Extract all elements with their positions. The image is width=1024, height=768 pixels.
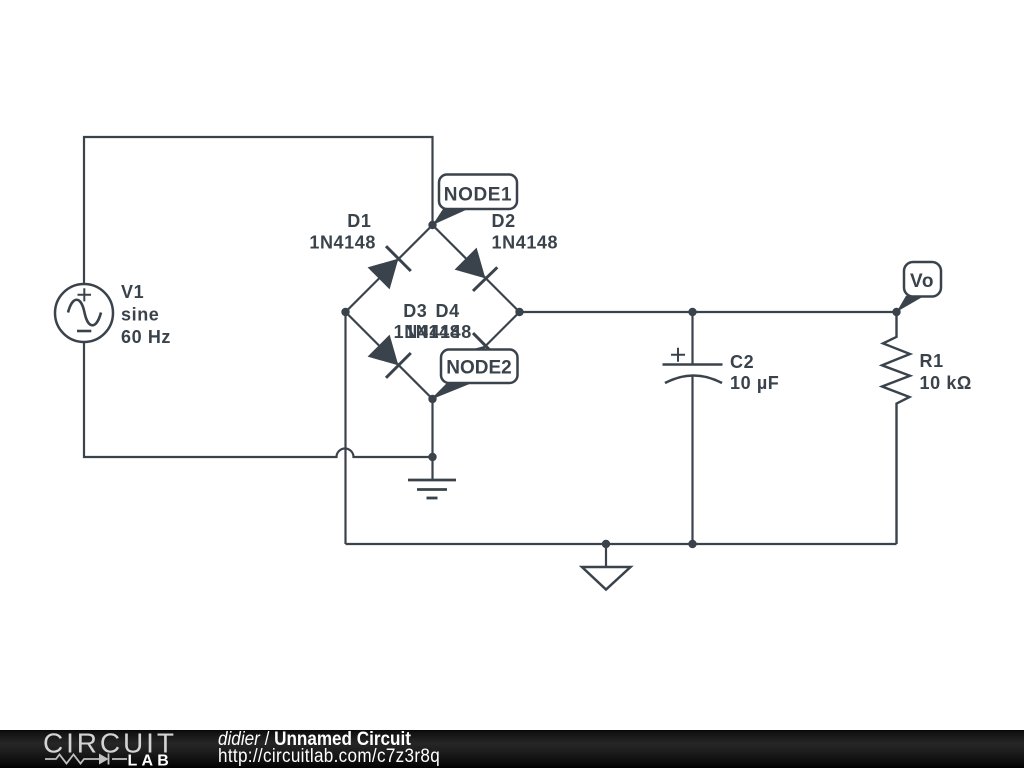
voltage source V1 [55,284,113,342]
wire ground G2 stub [605,544,607,567]
node dot R1 top / Vo [892,308,900,316]
wire V1 bottom to junction below bridge (with hop over vertical wire) [84,342,433,457]
resistor R1 [882,312,910,544]
wire bridge diamond edges [346,225,520,399]
ground G2 (triangle) [582,567,631,590]
wire top loop: V1 top to bridge top [84,137,433,284]
node dot bridge top [428,221,436,229]
svg-text:R1: R1 [920,351,944,371]
svg-text:LAB: LAB [128,753,173,768]
svg-text:60 Hz: 60 Hz [121,327,171,347]
svg-text:D2: D2 [492,211,516,231]
svg-text:1N4148: 1N4148 [309,233,376,253]
node dot bridge right [515,308,523,316]
svg-text:V1: V1 [121,282,144,302]
footer credits text [217,729,219,731]
wire bridge left node down to bottom rail [344,312,346,544]
svg-text:1N4148: 1N4148 [405,322,472,342]
svg-text:10 kΩ: 10 kΩ [920,373,972,393]
svg-text:sine: sine [121,305,159,325]
svg-text:NODE1: NODE1 [444,185,512,206]
svg-text:C2: C2 [730,352,754,372]
svg-text:D3: D3 [403,301,427,321]
capacitor C2 [663,348,723,383]
node dot ground junction below bridge [428,453,436,461]
label V1 sine 60 Hz [121,282,171,347]
svg-text:Vo: Vo [910,271,934,292]
svg-text:D4: D4 [435,301,459,321]
node dot bridge bottom [428,395,436,403]
node NODE1 callout [433,175,518,226]
label R1 10 kOhm [920,351,972,393]
node dot bridge left [341,308,349,316]
node NODE2 callout [433,350,518,400]
wire C2 top lead [691,312,693,364]
wire bridge right node to R1 top [520,311,897,313]
node dot C2 bottom [688,540,696,548]
svg-text:NODE2: NODE2 [446,358,511,379]
diode D2 (top node to right node) [455,248,498,291]
wire bridge bottom node down to junction [431,399,433,457]
node Vo callout [897,262,942,312]
diode D4 (bottom node to right node) [455,333,498,376]
label D2 1N4148 [492,211,559,253]
node dot ground G2 [602,540,610,548]
CircuitLab logo [0,730,200,768]
footer bar [0,730,1024,768]
wire ground G1 stub [431,457,433,479]
label C2 10 uF [730,352,779,393]
node dot C2 top [688,308,696,316]
svg-text:1N4148: 1N4148 [492,233,559,253]
svg-text:D1: D1 [347,211,371,231]
svg-text:10 µF: 10 µF [730,373,779,393]
junction dots [341,221,900,548]
wire bottom rail [346,543,897,545]
earth ground G1 under bridge [408,480,456,498]
diode D3 (left node to bottom node) [368,335,411,378]
diode D1 (left node to top node) [368,246,411,289]
label D1 1N4148 [309,211,376,253]
wire C2 bottom lead [691,376,693,544]
